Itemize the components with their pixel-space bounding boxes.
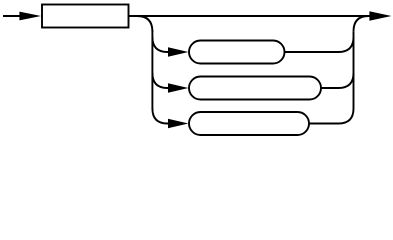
wire rejoin curve at node B: [354, 16, 369, 31]
pill P3: [189, 112, 309, 135]
wire exit row 3: [309, 109, 354, 124]
pill P1: [189, 41, 285, 64]
wire right vertical: [353, 31, 355, 109]
wire entry: [3, 15, 21, 17]
wire branch to row 1: [152, 37, 169, 52]
wire exit row 1: [285, 37, 354, 52]
arrowhead row 1: [168, 47, 188, 56]
arrowhead row 3: [168, 119, 188, 128]
arrowhead exit: [369, 11, 391, 20]
wire main top: [129, 15, 371, 17]
wire exit row 2: [321, 73, 354, 88]
arrowhead entry: [19, 12, 41, 21]
wire branch to row 2: [152, 73, 169, 88]
arrowhead row 2: [168, 83, 188, 92]
wire left vertical: [151, 30, 153, 109]
pill P2: [189, 77, 321, 100]
wire branch-down curve at node A: [137, 16, 152, 31]
box B1: [42, 5, 129, 28]
wire branch to row 3: [152, 109, 169, 124]
